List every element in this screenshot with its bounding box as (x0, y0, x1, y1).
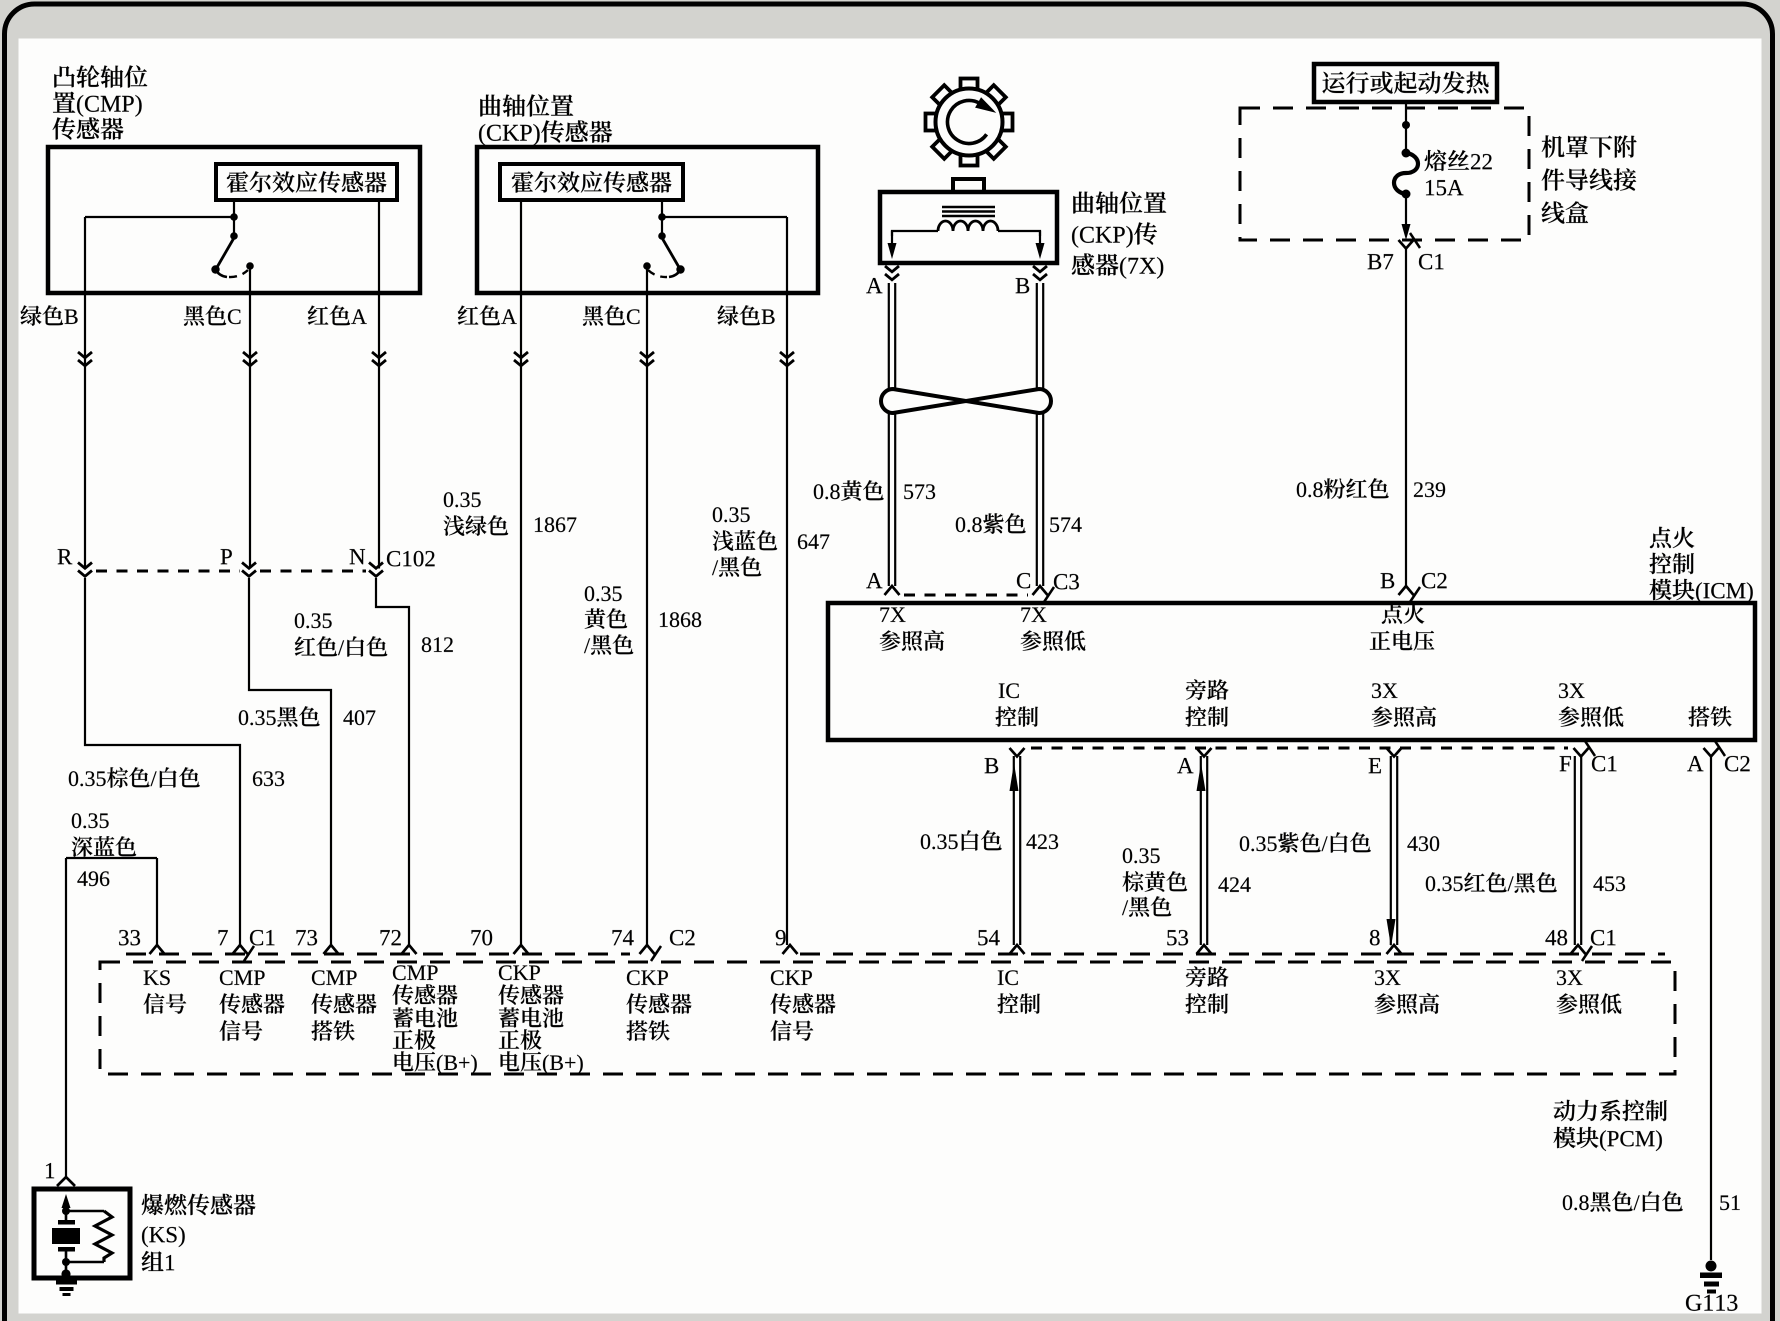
piezo bottom lead (65, 1251, 68, 1262)
wire 239 pink (1405, 248, 1407, 586)
CKP 7X sensor stem (953, 179, 984, 192)
hall-effect sensor U1 box (216, 164, 397, 200)
ICM 7X connector dashes (904, 594, 1028, 597)
coil lead A shaft (891, 231, 893, 246)
ICM bottom connector dashes (1031, 747, 1568, 750)
connector chevrons 7X B (1033, 266, 1047, 272)
pickup coil L1 (938, 221, 998, 231)
label 7X A (866, 278, 882, 293)
wire 423 white (1013, 756, 1015, 945)
label wire 51 (1563, 1191, 1683, 1212)
node CKP sw pivot (658, 232, 666, 240)
PCM connector dashes (126, 953, 630, 956)
ICM pin B C2 (1399, 586, 1414, 595)
KS bottom link to resistor (66, 1261, 104, 1264)
ICM pin A C2 gnd (1704, 748, 1719, 757)
CKP sensor title (480, 94, 573, 116)
label pin 1 (46, 1163, 54, 1178)
KS internal ground (56, 1280, 77, 1285)
CKP 7X sensor box (880, 192, 1057, 263)
PCM name label (1554, 1100, 1667, 1122)
piezo plate top (58, 1220, 75, 1225)
fuse F22 (1394, 153, 1418, 194)
twisted pair wire 573 upper (888, 283, 890, 388)
label N (350, 549, 365, 564)
label CKP green B (718, 305, 775, 326)
hall-effect sensor U2 box (500, 164, 683, 200)
rotation arrow (947, 100, 986, 143)
ICM ground label (1688, 706, 1731, 726)
label wire 647 (713, 507, 750, 522)
KS ground lead (65, 1262, 68, 1274)
piezo body (52, 1228, 80, 1244)
KS node top (62, 1207, 70, 1215)
connector C102 pin R (78, 563, 92, 569)
ICM 3X ref low label (1559, 683, 1584, 698)
ICM 7X ref low label (1021, 607, 1046, 621)
wire CKP green B vertical (786, 217, 788, 945)
KS internal arrow (62, 1194, 71, 1208)
label wire 573 (814, 480, 884, 501)
wire 496 dark blue (156, 858, 158, 945)
pickup coil core (942, 206, 995, 208)
label CKP red A (458, 305, 517, 325)
label red A (308, 305, 367, 325)
label wire 496 (72, 813, 109, 828)
connector C102 dashed line (96, 570, 240, 573)
wire 407 black (249, 578, 331, 945)
KS ground node (61, 1269, 70, 1278)
ICM 7X ref high label (880, 607, 905, 621)
wire CKP internal (661, 217, 663, 236)
label wire 574 (956, 513, 1026, 534)
label pin A (1177, 758, 1193, 773)
label pin B (985, 758, 999, 773)
switch S2 lever (662, 237, 681, 269)
ICM bypass label (1186, 679, 1229, 700)
reluctor wheel teeth (961, 79, 978, 91)
coil lead B (998, 231, 1040, 236)
ICM label (1650, 527, 1694, 548)
label wire 1867 (444, 492, 481, 507)
KS node bottom (62, 1258, 70, 1266)
PCM pin numbers (119, 930, 140, 945)
PCM dashed box (100, 962, 1675, 1074)
ICM IC control label (999, 683, 1019, 698)
label wire 239 (1297, 478, 1389, 499)
piezo plate bottom (58, 1247, 75, 1252)
twist symbol (881, 389, 1051, 413)
connector B7-C1 pin (1399, 240, 1414, 249)
label pin E (1369, 758, 1381, 773)
wire fuse down (1405, 194, 1407, 226)
PCM pin chevrons (150, 945, 165, 954)
wire hot to fuse (1405, 102, 1407, 153)
connector C102 pin N (369, 563, 383, 569)
KS label (142, 1194, 256, 1215)
label ICM A (866, 573, 882, 588)
label wire 423 (921, 830, 1002, 850)
fuse label (1425, 150, 1492, 171)
piezo element top lead (65, 1211, 68, 1221)
ICM 3X ref high label (1372, 683, 1397, 698)
wire CKP green B horiz (662, 216, 787, 218)
node CKP sw contact (643, 262, 651, 270)
coil lead A (892, 231, 938, 236)
ICM pin C C3 (1033, 586, 1048, 595)
underhood junction block dashed box (1240, 108, 1529, 240)
label G113 (1686, 1295, 1737, 1311)
label wire 633 (69, 767, 200, 788)
label wire 1868 (585, 586, 622, 601)
wire green B vertical (84, 217, 86, 569)
CKP 7X label (1073, 191, 1166, 213)
switch S2 dashed link (648, 270, 667, 277)
node CMP sw top (230, 213, 238, 221)
ground G113 symbol (1706, 1261, 1717, 1272)
label R (58, 549, 73, 564)
wire ground 51 (1710, 756, 1712, 1260)
label C102 (387, 551, 435, 567)
hall-effect sensor U1 label (227, 171, 387, 193)
wire CMP internal (233, 217, 235, 236)
wire CKP red A vertical (520, 200, 522, 945)
label wire 812 (295, 613, 332, 628)
wire hall2 to switch (661, 200, 663, 217)
connector chevrons CKP black C (640, 352, 654, 358)
wire CMP green B horiz (85, 216, 234, 218)
KS pin 1 chevron (57, 1177, 75, 1186)
connector chevrons CKP red A (514, 352, 528, 358)
label wire 430 (1240, 832, 1371, 853)
PCM pin function labels (144, 970, 170, 985)
wire red A vertical (378, 200, 380, 569)
connector chevrons black C (243, 352, 257, 358)
switch S1 dashed link (229, 270, 248, 277)
resistor R1 (95, 1211, 112, 1262)
label ICM B C2 (1381, 573, 1395, 588)
underhood junction block label (1542, 135, 1637, 157)
wire 453 red/black (1574, 756, 1576, 945)
wire 633 brown/white (85, 578, 240, 945)
label green B (21, 305, 78, 326)
wire CKP black C vertical (646, 266, 648, 945)
KS top link to resistor (66, 1210, 104, 1213)
wire 812 red/white (376, 578, 409, 945)
CKP sensor box (477, 147, 818, 293)
reluctor wheel rim (936, 89, 1003, 156)
label CKP black C (583, 305, 640, 326)
label pin F C1 (1560, 756, 1571, 771)
label 7X B (1016, 278, 1030, 293)
label B7 C1 (1368, 254, 1394, 269)
wire 424 tan/black (1200, 756, 1202, 945)
ICM box (828, 603, 1755, 740)
ICM pin A out (1197, 748, 1212, 757)
ICM pin E out (1387, 748, 1402, 757)
ICM pin F C1 out (1574, 748, 1589, 757)
wire hall1 to switch (233, 200, 235, 217)
switch S1 lever (216, 237, 235, 269)
label wire 407 (239, 706, 320, 727)
label P (221, 549, 232, 564)
coil lead B shaft (1039, 231, 1041, 246)
node CMP sw pivot (230, 232, 238, 240)
node CKP sw top (658, 213, 666, 221)
twisted pair wire 574 lower (1036, 412, 1038, 586)
ICM pin A 7X (885, 586, 900, 595)
twisted pair wire 573 lower (888, 412, 890, 586)
CMP sensor title (54, 65, 147, 87)
connector chevrons red A (372, 352, 386, 358)
knock sensor KS box (34, 1189, 130, 1278)
wire 430 purple/white (1390, 756, 1392, 945)
ICM pin B out (1010, 748, 1025, 757)
connector chevrons CKP green B (780, 352, 794, 358)
connector chevrons green B (78, 352, 92, 358)
label black C (184, 305, 241, 326)
connector C102 pin P (242, 563, 256, 569)
label ICM C C3 (1017, 573, 1030, 588)
label pin A C2 (1687, 756, 1703, 771)
wire black C vertical (249, 266, 251, 569)
CMP sensor box (48, 147, 420, 293)
hall-effect sensor U2 label (512, 171, 672, 193)
ICM ign voltage label (1382, 603, 1424, 623)
run/start hot box (1314, 64, 1497, 102)
connector chevrons 7X A (885, 266, 899, 272)
node CMP sw contact (246, 262, 254, 270)
label wire 424 (1123, 848, 1160, 863)
run/start hot label (1322, 71, 1488, 93)
twisted pair wire 574 upper (1036, 283, 1038, 388)
label wire 453 (1426, 872, 1557, 893)
junction node (1402, 121, 1410, 129)
